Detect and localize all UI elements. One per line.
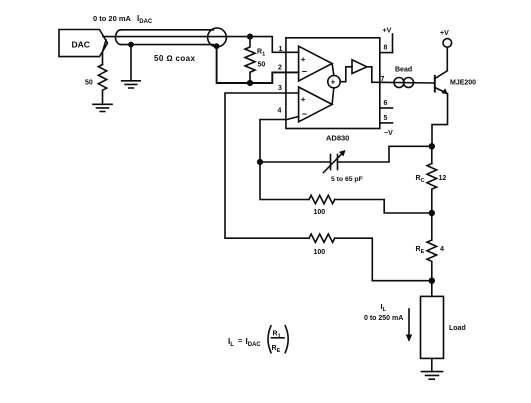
resistor 50 (DAC termination) xyxy=(98,65,106,105)
wire: pin 4 feedback run xyxy=(260,117,309,200)
resistor R1 50 xyxy=(245,37,255,83)
svg-text:−V: −V xyxy=(384,130,393,137)
node: Re / load junction xyxy=(429,278,435,284)
buffer amp A1 xyxy=(340,67,352,82)
node: R1 bottom xyxy=(247,80,253,86)
svg-text:5 to 65 pF: 5 to 65 pF xyxy=(331,176,363,183)
svg-text:1: 1 xyxy=(279,46,283,53)
wire: buffer output to pin 7 xyxy=(367,67,380,83)
op-amp input stage GM1 xyxy=(299,46,333,81)
svg-text:2: 2 xyxy=(278,65,282,72)
op-amp input stage GM2 xyxy=(299,87,333,122)
svg-text:0 to 250 mA: 0 to 250 mA xyxy=(364,315,403,322)
svg-text:5: 5 xyxy=(384,115,388,122)
node: coax far end xyxy=(214,43,220,49)
svg-text:100: 100 xyxy=(314,249,326,256)
DAC D/A converter block xyxy=(59,30,108,57)
wire: to pin 2 xyxy=(250,72,299,83)
svg-text:AD830: AD830 xyxy=(326,134,349,143)
ground (load) xyxy=(422,372,443,380)
svg-text:50: 50 xyxy=(85,80,93,87)
node: Rc / Re junction xyxy=(429,210,435,216)
svg-text:=: = xyxy=(238,336,243,345)
wire: upper 100 to Rc bottom node xyxy=(335,200,432,214)
pin 8 stub and +V xyxy=(380,52,393,54)
svg-text:+: + xyxy=(331,78,336,87)
node: R1 top xyxy=(247,34,253,40)
svg-text:−: − xyxy=(302,109,307,119)
node: emitter / Rc / cap junction xyxy=(429,143,435,149)
pin 5 stub xyxy=(380,122,393,124)
ferrite bead xyxy=(380,81,434,84)
wire: pin 3 feedback run to lower 100 ohm resistor xyxy=(225,93,309,238)
svg-text:DAC: DAC xyxy=(72,40,90,50)
transistor Q1 MJE200 xyxy=(434,76,436,92)
svg-text:6: 6 xyxy=(384,100,388,107)
svg-text:8: 8 xyxy=(384,45,388,52)
svg-text:+V: +V xyxy=(440,30,449,37)
variable capacitor 5 to 65 pF xyxy=(260,161,331,163)
resistor Re 4 xyxy=(431,213,433,240)
wire: to pin 1 xyxy=(250,37,299,53)
op-amp U1 AD830 package outline xyxy=(286,38,380,129)
svg-text:Bead: Bead xyxy=(395,67,412,74)
svg-text:MJE200: MJE200 xyxy=(450,80,476,87)
svg-text:0 to 20 mA: 0 to 20 mA xyxy=(93,14,132,23)
svg-text:50 Ω coax: 50 Ω coax xyxy=(154,54,195,63)
svg-text:50: 50 xyxy=(258,62,266,69)
node: coax shield ground tap xyxy=(128,42,134,48)
wire: DAC output signal line xyxy=(103,36,250,38)
svg-text:4: 4 xyxy=(278,108,282,115)
node: feedback junction pin4/cap xyxy=(257,159,263,165)
+V collector terminal xyxy=(443,39,452,48)
wire: lower 100 to Re bottom node xyxy=(335,238,432,281)
summing junction xyxy=(332,64,334,76)
load xyxy=(431,281,433,297)
svg-text:−: − xyxy=(302,67,307,77)
svg-text:+: + xyxy=(301,55,306,64)
ground (coax shield) xyxy=(122,81,141,88)
svg-text:3: 3 xyxy=(278,85,282,92)
wire: shield tap to ground xyxy=(130,45,132,81)
svg-text:4: 4 xyxy=(440,246,444,253)
svg-text:12: 12 xyxy=(439,175,447,182)
svg-text:Load: Load xyxy=(449,325,466,332)
resistor 100 (lower feedback) xyxy=(309,234,335,242)
ground (below 50 resistor) xyxy=(93,104,112,111)
pin 6 stub xyxy=(380,107,393,109)
wire: DAC to termination resistor xyxy=(103,40,107,65)
svg-text:100: 100 xyxy=(314,209,326,216)
wire: coax return to R1 bottom rail xyxy=(217,46,250,83)
resistor 100 (upper feedback) xyxy=(309,195,335,203)
resistor Rc 12 xyxy=(431,146,433,163)
svg-text:+: + xyxy=(301,95,306,104)
coax cable 50 ohm xyxy=(121,29,214,31)
svg-text:+V: +V xyxy=(383,28,392,35)
wire: load to ground xyxy=(431,358,433,371)
